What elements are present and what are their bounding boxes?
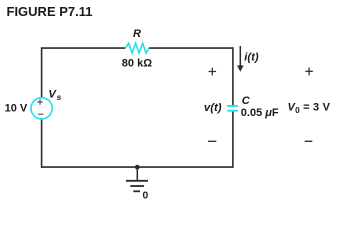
svg-text:Vs: Vs	[48, 89, 61, 102]
ground stub wire	[136, 167, 138, 180]
svg-text:10 V: 10 V	[5, 103, 28, 115]
resistor R zigzag	[125, 43, 149, 53]
source plus sign	[37, 99, 43, 105]
wire left lower segment	[41, 119, 43, 167]
capacitor C plates	[227, 105, 238, 107]
ground bar 1	[126, 180, 148, 182]
right minus polarity	[305, 140, 313, 142]
wire top-right segment	[149, 47, 233, 49]
current arrow i(t)	[239, 46, 241, 66]
wire right upper segment	[232, 47, 234, 105]
ground bar 2	[130, 185, 144, 187]
wire right lower segment	[232, 112, 234, 168]
svg-text:0: 0	[143, 190, 149, 201]
source minus sign	[38, 113, 43, 115]
svg-text:i(t): i(t)	[244, 51, 259, 63]
capacitor plus polarity	[209, 68, 217, 76]
svg-text:80 kΩ: 80 kΩ	[122, 58, 152, 70]
right plus polarity	[305, 68, 312, 76]
ground bar 3	[133, 190, 140, 192]
svg-text:R: R	[133, 28, 141, 40]
wire top-left segment	[42, 47, 126, 49]
svg-text:v(t): v(t)	[204, 102, 222, 114]
wire left upper segment	[41, 47, 43, 97]
voltage source Vs circle	[31, 98, 52, 119]
capacitor minus polarity	[208, 140, 216, 142]
svg-text:0.05 μF: 0.05 μF	[241, 107, 279, 119]
wire bottom segment	[42, 166, 233, 168]
svg-text:V0 = 3 V: V0 = 3 V	[288, 102, 331, 115]
svg-text:C: C	[242, 95, 251, 107]
svg-text:FIGURE P7.11: FIGURE P7.11	[7, 4, 93, 19]
ground node junction dot	[135, 165, 140, 170]
